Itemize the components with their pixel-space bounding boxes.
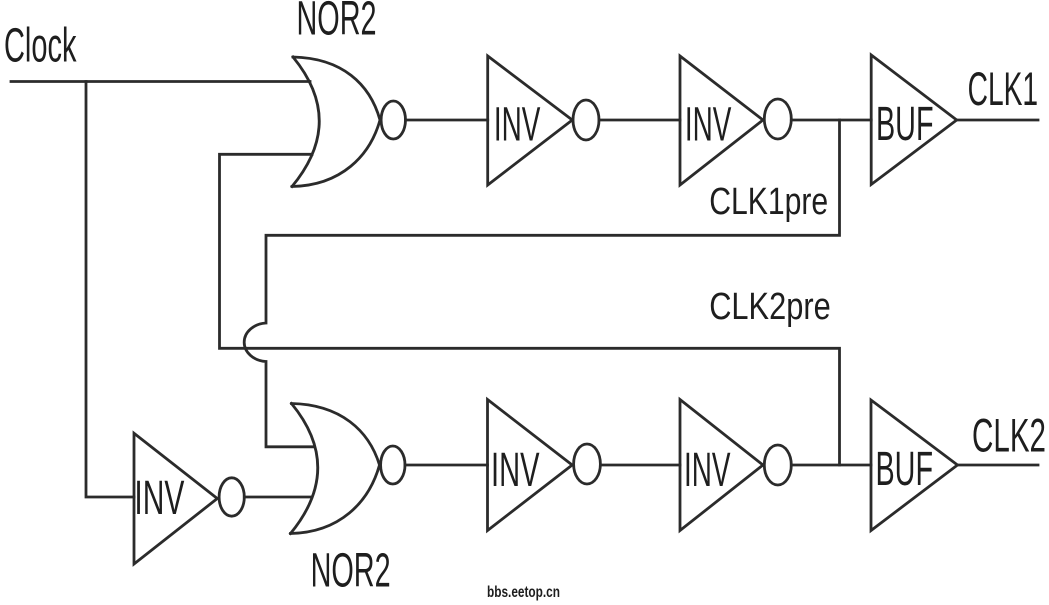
wire U8 output to U9 with CLK2pre tap: [791, 464, 871, 467]
svg-text:INV: INV: [134, 471, 184, 525]
wire U2 output to U3: [599, 119, 680, 122]
nor-gate U1 NOR2 top: [292, 57, 405, 187]
svg-text:CLK1: CLK1: [968, 63, 1039, 116]
nor-gate U6 NOR2 bottom: [291, 404, 405, 534]
svg-text:NOR2: NOR2: [311, 545, 391, 598]
svg-text:Clock: Clock: [4, 19, 77, 73]
wire net CLK2pre feedback to U1 lower input: [220, 154, 840, 465]
svg-text:CLK2: CLK2: [972, 410, 1046, 463]
inverter U5 INV (clock inverter, lower left): [134, 433, 244, 564]
svg-text:INV: INV: [684, 443, 731, 497]
wire Clock input horizontal: [11, 80, 310, 83]
inverter U2 INV (top first): [488, 56, 599, 185]
svg-text:NOR2: NOR2: [297, 0, 377, 46]
inverter U8 INV (bottom second): [680, 400, 791, 531]
wire net CLK1pre feedback with crossover hop to U6 upper input: [244, 120, 839, 447]
wire CLK1 output: [957, 119, 1038, 122]
wire U7 output to U8: [600, 464, 680, 467]
wire U1 output to U2: [406, 119, 488, 122]
svg-text:BUF: BUF: [876, 443, 934, 496]
inverter U3 INV (top second): [680, 56, 791, 185]
wire U3 output to U4 with CLK1pre tap: [791, 119, 871, 122]
wire U6 output to U7: [405, 464, 488, 467]
svg-text:BUF: BUF: [876, 98, 934, 151]
wire Clock branch vertical to lower inverter: [86, 82, 134, 498]
svg-text:INV: INV: [491, 443, 540, 497]
inverter U7 INV (bottom first): [488, 400, 601, 531]
svg-text:CLK2pre: CLK2pre: [709, 286, 831, 328]
svg-text:CLK1pre: CLK1pre: [709, 181, 828, 223]
svg-text:INV: INV: [685, 98, 732, 152]
wire U5 output to U6 lower input: [244, 496, 311, 499]
buffer U9 BUF bottom: [871, 400, 958, 531]
svg-text:bbs.eetop.cn: bbs.eetop.cn: [487, 584, 560, 601]
svg-text:INV: INV: [494, 98, 541, 152]
buffer U4 BUF top: [871, 55, 957, 185]
wire CLK2 output: [958, 464, 1039, 467]
